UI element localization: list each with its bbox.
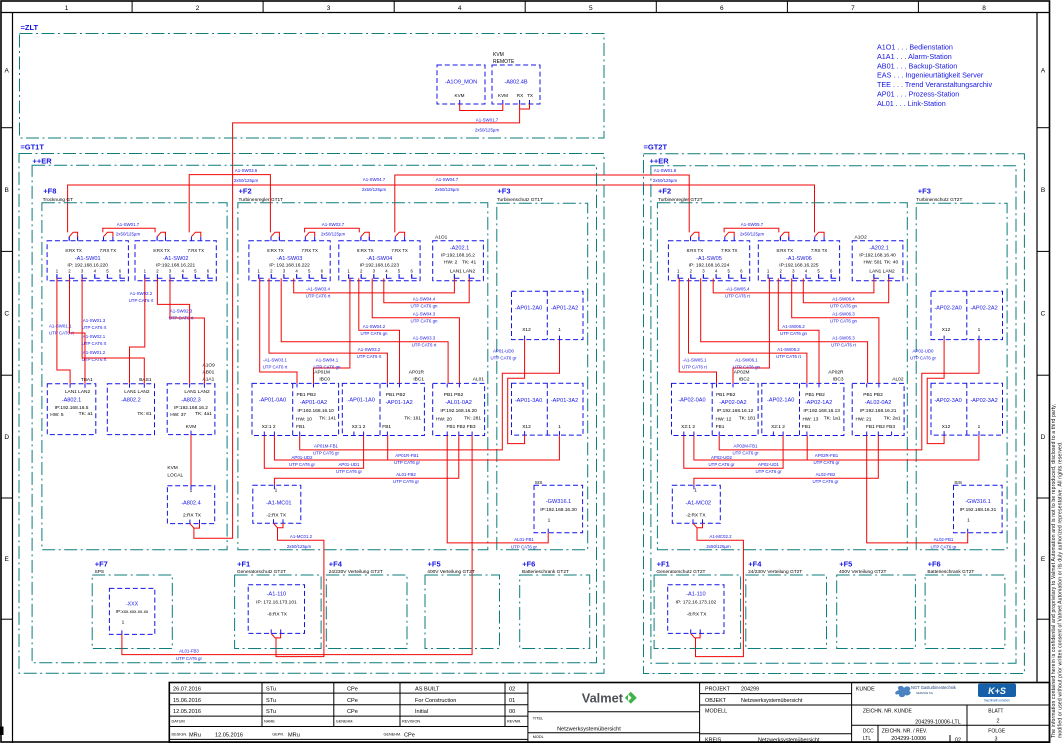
svg-text:Batterieschrank GT2T: Batterieschrank GT2T (927, 569, 974, 575)
svg-text:2: 2 (997, 718, 1000, 724)
svg-text:-A1-SW06: -A1-SW06 (786, 256, 812, 262)
svg-text:1: 1 (694, 488, 697, 494)
svg-text:FB1: FB1 (802, 424, 811, 430)
svg-text:LAN1 LAN2: LAN1 LAN2 (124, 389, 150, 395)
svg-text:modified or used without prior: modified or used without prior written c… (1058, 441, 1063, 738)
svg-text:00: 00 (509, 709, 515, 715)
svg-text:+F5: +F5 (839, 560, 852, 569)
svg-text:A1-SW01.2: A1-SW01.2 (83, 350, 106, 355)
wire A802.3 KVM to A802.4 (190, 435, 192, 486)
svg-text:UTP CAT6 rt: UTP CAT6 rt (82, 325, 108, 330)
svg-text:A1-SW05.3: A1-SW05.3 (832, 336, 855, 341)
svg-text:LAN1 LAN2: LAN1 LAN2 (450, 269, 476, 275)
svg-text:UTP CAT6 rt: UTP CAT6 rt (831, 343, 857, 348)
svg-text:7:RX TX: 7:RX TX (301, 248, 318, 253)
svg-text:-A202.1: -A202.1 (869, 246, 889, 252)
svg-text:02: 02 (509, 687, 515, 693)
wire KVM A1O9_MON to A802.4B (460, 104, 503, 111)
svg-text:Generatorschutz GT2T: Generatorschutz GT2T (656, 569, 705, 575)
switch -A1-SW06 (758, 241, 839, 281)
svg-text:-A802.3: -A802.3 (181, 398, 201, 404)
svg-text:PB1 PB2: PB1 PB2 (386, 392, 406, 398)
wire APxR-FB1 long to +F3 pair2 port1 (694, 435, 979, 460)
svg-text:A1-MC01.2: A1-MC01.2 (290, 534, 313, 539)
svg-text:IP:xxx.xxx.xx.xx: IP:xxx.xxx.xx.xx (116, 609, 149, 614)
wire fiber SW01-8 to GT2T SW06-7 (68, 185, 815, 232)
svg-text:A1-SW06.3: A1-SW06.3 (832, 311, 855, 316)
svg-text:AP01-UD2: AP01-UD2 (292, 455, 314, 460)
svg-text:1: 1 (978, 424, 981, 430)
svg-text:AP01M: AP01M (314, 370, 330, 376)
svg-text:IBC2: IBC2 (739, 377, 750, 383)
svg-text:+F4: +F4 (748, 560, 762, 569)
wire SW4.2 to 1A2 PB2 (359, 278, 400, 383)
svg-text:+F2: +F2 (658, 187, 671, 196)
svg-text:7:RX TX: 7:RX TX (391, 248, 408, 253)
svg-text:X12: X12 (522, 424, 531, 430)
svg-text:STu: STu (266, 709, 276, 715)
svg-text:AL01 . . . Link-Station: AL01 . . . Link-Station (877, 99, 946, 108)
svg-text:-A1-110: -A1-110 (267, 592, 287, 598)
svg-text:Initial: Initial (415, 709, 428, 715)
svg-text:KVM: KVM (498, 93, 508, 98)
svg-text:1: 1 (65, 5, 69, 12)
wire fiber jumper A1-SW01.7 (103, 228, 155, 232)
svg-text:D: D (4, 434, 9, 441)
svg-text:ZEICHN. NR. KUNDE: ZEICHN. NR. KUNDE (863, 708, 913, 714)
svg-text:FOLGE: FOLGE (988, 728, 1006, 734)
svg-text:LOCAL: LOCAL (167, 473, 183, 479)
svg-text:CPe: CPe (347, 698, 358, 704)
svg-text:1: 1 (558, 327, 561, 333)
wire AL01-FB3 to SPS (122, 436, 472, 655)
svg-text:K+S: K+S (988, 686, 1006, 696)
svg-text:IP: 172.16.173.102: IP: 172.16.173.102 (676, 600, 717, 606)
svg-text:TK: 1a1: TK: 1a1 (824, 416, 841, 422)
svg-text:UTP CAT6 rt: UTP CAT6 rt (412, 343, 438, 348)
svg-text:Netzwerksystemübersicht: Netzwerksystemübersicht (557, 726, 621, 732)
wire APx-UD0 X12 loop (508, 340, 525, 444)
svg-text:8:RX TX: 8:RX TX (687, 248, 704, 253)
svg-text:-AP01-1A2: -AP01-1A2 (385, 400, 412, 406)
svg-text:2x50/125µm: 2x50/125µm (435, 187, 460, 192)
svg-text:+F3: +F3 (497, 187, 510, 196)
svg-text:TX: TX (527, 93, 533, 98)
svg-text:2x50/125µm: 2x50/125µm (653, 178, 678, 183)
svg-text:PB1 PB2: PB1 PB2 (863, 392, 883, 398)
svg-text:UTP CAT6 gn: UTP CAT6 gn (733, 365, 760, 370)
svg-text:-A202.1: -A202.1 (450, 246, 470, 252)
svg-text:-A1-SW03.4: -A1-SW03.4 (306, 287, 330, 292)
svg-text:FB1 FB2 FB3: FB1 FB2 FB3 (866, 424, 895, 430)
svg-text:A1-SW01.8: A1-SW01.8 (654, 168, 677, 173)
svg-text:-A1-110: -A1-110 (686, 592, 706, 598)
svg-text:UTP CAT6 rt: UTP CAT6 rt (82, 341, 108, 346)
svg-text:A1O1 . . . Bedienstation: A1O1 . . . Bedienstation (877, 43, 953, 52)
controller -AP01-0A0 (252, 383, 339, 435)
svg-text:AL02-FB2: AL02-FB2 (816, 472, 836, 477)
wire SW3.1 to 0A2 PB1 (679, 278, 716, 383)
wire SW.4 to LAN1 (294, 278, 455, 293)
svg-text:UTP CAT6 rt: UTP CAT6 rt (776, 354, 802, 359)
svg-text:MRu: MRu (288, 733, 300, 739)
wire ALx-FB2 to MC port1 (274, 436, 458, 486)
svg-text:-GW316.1: -GW316.1 (546, 499, 572, 505)
svg-text:UTP CAT6 gn: UTP CAT6 gn (411, 318, 438, 323)
svg-text:400V Verteilung GT2T: 400V Verteilung GT2T (427, 569, 475, 575)
svg-text:KVM: KVM (167, 465, 177, 471)
wire SW4.4 to LAN2 (384, 278, 469, 303)
svg-text:Netzwerksystemübersicht: Netzwerksystemübersicht (758, 737, 820, 743)
svg-text:HW: 5: HW: 5 (50, 412, 64, 418)
wire APx-UD2 (684, 436, 783, 469)
svg-text:24/230V Verteilung GT2T: 24/230V Verteilung GT2T (329, 569, 383, 575)
svg-text:LAN1 LAN2: LAN1 LAN2 (869, 269, 895, 275)
switch -A1-SW05 (668, 241, 749, 281)
svg-text:AP02R: AP02R (828, 370, 844, 376)
wire A1-SW01.1 to A802.1 LAN1 (57, 278, 70, 384)
svg-text:Turbinenschutz GT2T: Turbinenschutz GT2T (916, 197, 962, 203)
svg-text:3: 3 (995, 736, 998, 742)
svg-text:UTP CAT6 rt: UTP CAT6 rt (725, 294, 751, 299)
svg-text:CPe: CPe (347, 709, 358, 715)
wire fiber SW04-7 to GT2T SW05-8 (395, 175, 689, 232)
svg-text:FB1: FB1 (716, 424, 725, 430)
svg-text:-AP01-3A2: -AP01-3A2 (551, 398, 578, 404)
svg-text:=ZLT: =ZLT (21, 23, 39, 32)
svg-text:IP: 192.168.16.224: IP: 192.168.16.224 (689, 263, 730, 269)
svg-text:NAME: NAME (264, 720, 275, 724)
station -A802.2 BAS1 (107, 384, 154, 435)
svg-text:1: 1 (967, 518, 970, 524)
svg-text:+F1: +F1 (237, 560, 250, 569)
svg-text:-A802.4: -A802.4 (181, 501, 201, 507)
svg-text:01: 01 (509, 698, 515, 704)
svg-text:+F7: +F7 (95, 560, 108, 569)
svg-text:CPe: CPe (347, 687, 358, 693)
wire SW3.3 to AL PB1 (281, 278, 448, 383)
svg-text:-AP01-3A0: -AP01-3A0 (515, 398, 542, 404)
wire SW4.3 to AL PB2 (792, 278, 879, 383)
svg-text:+F2: +F2 (239, 187, 252, 196)
wire A1-SW02.1 to A802.2 LAN1 jog (130, 278, 145, 384)
svg-text:AP02M: AP02M (734, 370, 750, 376)
wire APx-UD2 (264, 436, 363, 469)
svg-text:AP01-UD1: AP01-UD1 (339, 462, 361, 467)
top column band (1, 12, 1050, 14)
svg-text:IP: 192.168.16.222: IP: 192.168.16.222 (269, 263, 310, 269)
svg-text:IP:192.168.16.225: IP:192.168.16.225 (779, 263, 819, 269)
svg-text:-A1-SW03: -A1-SW03 (277, 256, 303, 262)
IO station -AP02-2A0 / -AP02-2A2 (931, 291, 1003, 339)
svg-text:12.05.2016: 12.05.2016 (173, 709, 201, 715)
wire FB1 T-join (387, 436, 389, 461)
svg-text:-AP02-1A2: -AP02-1A2 (805, 400, 832, 406)
svg-text:LTL: LTL (863, 736, 871, 742)
svg-text:-AP02-0A0: -AP02-0A0 (678, 398, 705, 404)
svg-text:UTP CAT6 gr: UTP CAT6 gr (511, 545, 537, 550)
svg-text:7:RX TX: 7:RX TX (721, 248, 738, 253)
svg-text:-A1-SW05.4: -A1-SW05.4 (726, 287, 750, 292)
svg-text:HW: 10: HW: 10 (296, 417, 312, 423)
svg-text:Nachhaltn erleben: Nachhaltn erleben (984, 699, 1010, 703)
svg-text:2x50/125µm: 2x50/125µm (116, 231, 141, 236)
svg-text:IP:192.168.16.40: IP:192.168.16.40 (859, 253, 896, 259)
svg-text:4: 4 (458, 5, 462, 12)
controller -AP01-1A0 (342, 383, 424, 435)
svg-text:DATUM: DATUM (172, 720, 185, 724)
svg-text:KVM: KVM (186, 424, 196, 430)
svg-text:7:RX TX: 7:RX TX (811, 248, 828, 253)
svg-text:X2:1 2: X2:1 2 (262, 424, 276, 430)
wire SW3.2 to 1A2 PB1 (689, 278, 807, 383)
svg-text:UTP CAT6 rt: UTP CAT6 rt (306, 294, 332, 299)
svg-text:HW: 12: HW: 12 (716, 417, 732, 423)
svg-text:MRu: MRu (189, 733, 201, 739)
svg-text:X12: X12 (942, 327, 951, 333)
gateway -A1-110 (248, 585, 304, 634)
wire SW4.1 to 0A2 PB2 (733, 278, 769, 383)
svg-text:-2:RX TX: -2:RX TX (266, 513, 286, 519)
svg-text:TK: 281: TK: 281 (464, 416, 481, 422)
svg-text:2x50/125µm: 2x50/125µm (475, 128, 500, 133)
svg-text:TK: 81: TK: 81 (137, 411, 151, 417)
svg-text:204299-10006-LTL: 204299-10006-LTL (915, 719, 960, 725)
svg-text:-AP02-3A0: -AP02-3A0 (934, 398, 961, 404)
media converter -A1-MC02 (672, 485, 720, 523)
svg-text:-AP02-0A2: -AP02-0A2 (719, 400, 746, 406)
svg-text:IP: 172.16.173.101: IP: 172.16.173.101 (256, 600, 297, 606)
svg-text:A1-SW04.7: A1-SW04.7 (436, 177, 459, 182)
gateway -A1-110 (668, 585, 724, 634)
svg-text:STu: STu (266, 698, 276, 704)
svg-text:UTP CAT6 gr: UTP CAT6 gr (931, 545, 957, 550)
svg-text:Turbinenschutz GT1T: Turbinenschutz GT1T (497, 197, 543, 203)
svg-text:-AP01-2A2: -AP01-2A2 (551, 306, 578, 312)
svg-text:HW: 20: HW: 20 (436, 417, 452, 423)
svg-text:IP:192.168.16.12: IP:192.168.16.12 (717, 408, 754, 414)
NGT Gasturbinentechnik logo (895, 686, 910, 697)
svg-text:KUNDE: KUNDE (856, 687, 875, 693)
IO station -AP01-2A0 / -AP01-2A2 (512, 291, 584, 339)
wire APxM-FB1 to +F3 pair1 port1 (719, 340, 979, 450)
K+S logo (978, 684, 1016, 698)
svg-text:1: 1 (978, 327, 981, 333)
svg-text:A1-SW03.6: A1-SW03.6 (235, 168, 258, 173)
svg-text:24/230V Verteilung GT2T: 24/230V Verteilung GT2T (748, 569, 802, 575)
svg-text:8: 8 (982, 5, 986, 12)
svg-text:-GW316.1: -GW316.1 (965, 499, 991, 505)
svg-text:2x50/125µm: 2x50/125µm (234, 178, 259, 183)
svg-text:AL02-FB1: AL02-FB1 (934, 537, 954, 542)
svg-text:-AP01-1A0: -AP01-1A0 (348, 398, 375, 404)
monitor station -A1O9_MON (437, 65, 485, 104)
svg-text:IP:192.168.16.13: IP:192.168.16.13 (803, 408, 840, 414)
svg-text:A1-SW01.1: A1-SW01.1 (49, 324, 72, 329)
svg-text:TK: 41: TK: 41 (462, 260, 476, 266)
svg-text:204299-10006: 204299-10006 (891, 736, 926, 742)
svg-text:HW: 13: HW: 13 (803, 417, 819, 423)
svg-text:UTP CAT6 gr: UTP CAT6 gr (910, 356, 936, 361)
svg-text:UTP CAT6 gr: UTP CAT6 gr (176, 656, 202, 661)
svg-text:-AP02-2A2: -AP02-2A2 (970, 306, 997, 312)
svg-text:-A1-MC01: -A1-MC01 (266, 501, 292, 507)
svg-text:++ER: ++ER (650, 157, 670, 166)
svg-text:8:RX TX: 8:RX TX (357, 248, 374, 253)
wire fiber SW02-7 to SW03-8 (189, 175, 270, 233)
svg-text:2x50/125µm: 2x50/125µm (321, 231, 346, 236)
svg-text:GENEHM.: GENEHM. (384, 733, 402, 737)
svg-text:AP02-UD1: AP02-UD1 (758, 462, 780, 467)
svg-text:8:RX TX: 8:RX TX (65, 248, 82, 253)
wire A1-SW01.7 KVM remote run (194, 104, 520, 538)
svg-text:A1-SW06.4: A1-SW06.4 (832, 297, 855, 302)
svg-text:+F5: +F5 (428, 560, 441, 569)
svg-text:12.05.2016: 12.05.2016 (215, 733, 243, 739)
svg-text:BAS1: BAS1 (139, 377, 152, 383)
svg-text:-A1-SW02: -A1-SW02 (163, 256, 189, 262)
wire APxM-FB1 to +F3 pair1 port1 (300, 340, 560, 450)
svg-text:TK: 4a1: TK: 4a1 (195, 411, 212, 417)
svg-text:A1A1 . . . Alarm-Station: A1A1 . . . Alarm-Station (877, 52, 952, 61)
wire APxR-FB1 long to +F3 pair2 port1 (274, 435, 559, 460)
svg-text:HW: 501: HW: 501 (864, 260, 883, 266)
wire MC fiber down to A1-110 (693, 523, 703, 528)
svg-text:IBC1: IBC1 (413, 377, 424, 383)
svg-text:AL02: AL02 (892, 377, 904, 383)
svg-text:AP01R: AP01R (409, 370, 425, 376)
svg-text:+F3: +F3 (918, 187, 931, 196)
svg-text:IP:192.168.16.2: IP:192.168.16.2 (441, 253, 475, 259)
svg-text:A1-SW01.7: A1-SW01.7 (476, 118, 499, 123)
svg-text:A1-SW06.2: A1-SW06.2 (782, 324, 805, 329)
svg-text:X12: X12 (522, 327, 531, 333)
wire APx-UD0 X12 loop (927, 340, 944, 444)
svg-text:A1-SW04.2: A1-SW04.2 (363, 324, 386, 329)
svg-text:AL01: AL01 (473, 377, 485, 383)
svg-text:6: 6 (720, 5, 724, 12)
svg-text:-A1-SW01: -A1-SW01 (75, 256, 101, 262)
svg-text:-AP02-1A0: -AP02-1A0 (767, 398, 794, 404)
svg-text:-A802.4B: -A802.4B (504, 80, 528, 86)
svg-text:AP02-UD2: AP02-UD2 (711, 455, 733, 460)
switch -A1-SW04 (339, 241, 420, 281)
wire SW4.4 to LAN2 (803, 278, 888, 303)
svg-text:UTP CAT6 gr: UTP CAT6 gr (814, 460, 840, 465)
svg-text:TK: 181: TK: 181 (739, 416, 756, 422)
svg-text:400V Verteilung GT2T: 400V Verteilung GT2T (839, 569, 887, 575)
svg-text:IBC0: IBC0 (319, 377, 330, 383)
svg-text:ZEICHN. NR. / REV.: ZEICHN. NR. / REV. (882, 728, 927, 734)
svg-text:-8:RX TX: -8:RX TX (687, 612, 707, 618)
svg-text:A1-SW04.7: A1-SW04.7 (363, 177, 386, 182)
svg-text:Batterieschrank GT2T: Batterieschrank GT2T (522, 569, 569, 575)
svg-text:-2:RX TX: -2:RX TX (686, 513, 706, 519)
svg-text:UTP CAT6 gr: UTP CAT6 gr (733, 451, 759, 456)
svg-text:204299: 204299 (741, 687, 759, 693)
svg-text:FB1 FB2 FB3: FB1 FB2 FB3 (446, 424, 475, 430)
svg-text:AP01M-FB1: AP01M-FB1 (314, 444, 338, 449)
wire SW3.1 to 0A2 PB1 (260, 278, 297, 383)
svg-text:UTP CAT6 gr: UTP CAT6 gr (336, 469, 362, 474)
svg-text:AP02R-FB1: AP02R-FB1 (815, 453, 839, 458)
svg-text:REMOTE: REMOTE (493, 59, 515, 65)
svg-text:For Construction: For Construction (415, 698, 456, 704)
svg-text:FB1: FB1 (382, 424, 391, 430)
svg-text:A1O2: A1O2 (855, 235, 868, 241)
svg-text:UTP CAT6 gn: UTP CAT6 gn (411, 304, 438, 309)
wire A1-SW02.3 to A802.3 LAN2 (170, 278, 204, 384)
svg-text:LAN1 LAN2: LAN1 LAN2 (184, 389, 210, 395)
svg-text:5: 5 (589, 5, 593, 12)
wire SW3.3 to AL PB1 (701, 278, 868, 383)
svg-text:-A1O9_MON: -A1O9_MON (445, 80, 477, 86)
svg-text:PB1 PB2: PB1 PB2 (716, 392, 736, 398)
wire ALx-FB1 to SIS gateway (447, 436, 548, 543)
svg-text:A: A (1041, 68, 1046, 75)
svg-text:02: 02 (955, 737, 961, 743)
svg-text:MODELL: MODELL (705, 708, 727, 714)
svg-text:TK: 40: TK: 40 (884, 260, 898, 266)
svg-text:UTP CAT6 gr: UTP CAT6 gr (289, 462, 315, 467)
wire A1-SW02.2 to A802.3 LAN1 (157, 278, 189, 384)
svg-text:PB1 PB2: PB1 PB2 (805, 392, 825, 398)
svg-text:IBC3: IBC3 (833, 377, 844, 383)
svg-text:AP01-UD0: AP01-UD0 (493, 349, 515, 354)
KVM extender -A802.4 local (167, 486, 214, 524)
svg-text:Netzwerksystemübersicht: Netzwerksystemübersicht (741, 698, 803, 704)
svg-text:A: A (5, 68, 10, 75)
svg-text:SERVICE KG: SERVICE KG (916, 691, 933, 695)
svg-text:A1-SW04.3: A1-SW04.3 (413, 311, 436, 316)
svg-text:C: C (1041, 311, 1046, 318)
svg-text:BLATT: BLATT (988, 708, 1003, 714)
svg-text:AP02M-FB1: AP02M-FB1 (734, 444, 758, 449)
svg-text:UTP CAT6 gn: UTP CAT6 gn (830, 304, 857, 309)
svg-text:8:RX TX: 8:RX TX (153, 248, 170, 253)
svg-text:UTP CAT6 rt: UTP CAT6 rt (129, 298, 155, 303)
wire fiber jumper A1-SW03.7 (305, 228, 360, 232)
svg-text:IP:192.168.16.31: IP:192.168.16.31 (960, 507, 997, 513)
svg-text:26.07.2016: 26.07.2016 (173, 687, 201, 693)
svg-text:7: 7 (851, 5, 855, 12)
svg-text:A1-SW02.3: A1-SW02.3 (170, 309, 193, 314)
svg-text:EAS . . . Ingenieurtätigkeit S: EAS . . . Ingenieurtätigkeit Server (877, 71, 984, 80)
svg-text:1: 1 (558, 424, 561, 430)
svg-text:-A1-SW05.1: -A1-SW05.1 (683, 358, 707, 363)
svg-text:UTP CAT6 gr: UTP CAT6 gr (813, 479, 839, 484)
svg-text:UTP CAT6 gr: UTP CAT6 gr (709, 462, 735, 467)
wire TX elbow (520, 104, 530, 109)
wire SW3.2 to 1A2 PB1 (269, 278, 387, 383)
IO station -AP02-3A0 / -AP02-3A2 (931, 383, 1003, 435)
svg-text:GEPR.: GEPR. (272, 733, 284, 737)
svg-text:REVNR.: REVNR. (507, 720, 521, 724)
svg-text:UTP CAT6 rt: UTP CAT6 rt (357, 354, 383, 359)
svg-text:A1-SW02.2: A1-SW02.2 (130, 291, 153, 296)
svg-text:E: E (1041, 556, 1046, 563)
svg-text:STu: STu (266, 687, 276, 693)
svg-text:FB1: FB1 (296, 424, 305, 430)
svg-text:PROJEKT: PROJEKT (705, 687, 731, 693)
svg-text:-AP01-2A0: -AP01-2A0 (515, 306, 542, 312)
svg-text:SPS: SPS (95, 569, 105, 575)
svg-text:IP:192.168.16.10: IP:192.168.16.10 (297, 408, 334, 414)
svg-text:AL01-FB3: AL01-FB3 (179, 648, 199, 653)
svg-text:IP: 192.168.16.220: IP: 192.168.16.220 (67, 263, 108, 269)
svg-text:IP:192.168.16.30: IP:192.168.16.30 (540, 507, 577, 513)
title block (169, 683, 1049, 743)
